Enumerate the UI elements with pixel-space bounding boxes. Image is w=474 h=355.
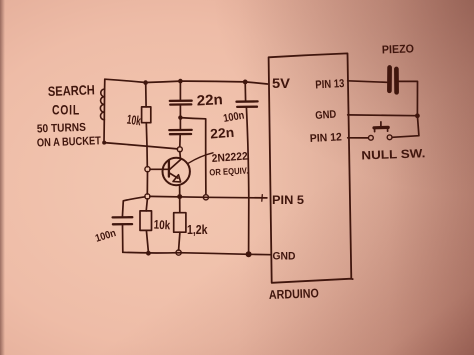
resistor 1.2k — [174, 199, 186, 250]
transistor Q1 2N2222 — [150, 152, 190, 195]
inductor L1 search coil — [100, 79, 104, 142]
label: NULL SW. — [361, 146, 425, 162]
pin label: 5V — [272, 76, 290, 91]
null switch S1 — [369, 122, 393, 140]
svg-text:ARDUINO: ARDUINO — [269, 286, 320, 302]
svg-text:1,2k: 1,2k — [187, 222, 208, 237]
junction ring: transistor base node — [145, 167, 150, 172]
label: 10k (lower) — [153, 218, 170, 233]
svg-text:OR EQUIV.: OR EQUIV. — [209, 165, 248, 177]
junction: rail x 10k top — [143, 80, 148, 85]
wire: PIN12 to null switch — [348, 137, 369, 139]
wire: bottom GND run to Arduino — [123, 252, 271, 254]
Arduino U1 box — [269, 53, 353, 282]
label: ARDUINO — [269, 286, 320, 302]
svg-text:10k: 10k — [153, 218, 170, 233]
svg-text:PIN 12: PIN 12 — [310, 131, 343, 145]
label: 100n (lower) — [94, 227, 118, 245]
svg-text:10k: 10k — [126, 112, 142, 129]
capacitor 100n (lower left) — [113, 197, 145, 253]
capacitor 22n (upper) — [170, 81, 192, 117]
junction: gnd x piezo return — [415, 113, 420, 118]
label pointer line to 2N2222 — [188, 153, 213, 163]
junction: rail x 100n top — [243, 80, 248, 85]
svg-text:SEARCH: SEARCH — [48, 82, 95, 99]
svg-text:GND: GND — [315, 109, 337, 122]
wire: PIN13 to piezo — [348, 81, 387, 83]
svg-text:2N2222: 2N2222 — [211, 151, 248, 165]
svg-text:PIN 13: PIN 13 — [315, 78, 345, 92]
pin label: GND (lower) — [273, 251, 296, 263]
junction: rail x cap top — [178, 79, 183, 84]
resistor 10k (upper) — [142, 83, 151, 167]
pin label: PIN 13 — [315, 78, 345, 92]
label: 10k (upper) — [126, 112, 142, 129]
junction ring: PIN5 x 10k node — [145, 194, 150, 199]
tick on PIN5 wire — [261, 195, 264, 202]
junction ring: GND x 1.2k bottom — [176, 250, 181, 255]
junction: PIN5 x emitter/1.2k node — [177, 194, 182, 199]
junction: between 22n caps — [178, 115, 182, 119]
resistor 10k (lower) — [140, 199, 152, 251]
svg-text:22n: 22n — [210, 125, 235, 142]
label: PIEZO — [382, 43, 414, 56]
wire: GND to null switch — [348, 114, 417, 117]
label: 22n (upper) — [196, 92, 223, 109]
capacitor 100n (upper right) — [237, 82, 258, 252]
svg-text:22n: 22n — [196, 92, 223, 109]
pin label: PIN 12 — [310, 131, 343, 145]
label: OR EQUIV. — [209, 165, 248, 177]
label: SEARCH COIL — [48, 82, 95, 117]
label: 50 TURNS ON A BUCKET — [37, 122, 101, 150]
label: 1,2k — [187, 222, 208, 237]
wire: cap midpoint over to PIN5 line — [180, 118, 206, 195]
piezo PZ1 — [389, 68, 396, 93]
junction ring: PIN5 x cap branch — [203, 195, 208, 200]
label: 100n (upper) — [222, 109, 245, 125]
pin label: GND (upper) — [315, 109, 337, 122]
junction: GND x 10k bottom — [146, 251, 151, 256]
junction ring: collector node — [177, 147, 182, 152]
junction: coil bottom corner — [102, 141, 106, 145]
junction: GND x 100n/cap line — [246, 251, 252, 257]
label: 22n (lower) — [210, 125, 235, 142]
svg-text:ON A BUCKET: ON A BUCKET — [37, 135, 101, 149]
svg-text:5V: 5V — [272, 76, 290, 91]
capacitor 22n (lower) — [169, 118, 191, 147]
svg-text:50 TURNS: 50 TURNS — [37, 122, 87, 136]
wire: coil bottom to transistor collector node — [104, 143, 177, 149]
wire: PIN 5 line to Arduino — [150, 196, 267, 198]
pin label: PIN 5 — [272, 193, 304, 207]
svg-text:COIL: COIL — [52, 103, 80, 118]
svg-text:PIEZO: PIEZO — [382, 43, 414, 56]
label: 2N2222 — [211, 151, 248, 165]
svg-text:GND: GND — [273, 251, 296, 263]
wire: base node vertical down to PIN5 node — [146, 172, 148, 194]
svg-text:NULL SW.: NULL SW. — [361, 146, 425, 162]
wire: piezo right side down — [392, 81, 419, 137]
wire: 5V top rail from coil top to Arduino — [105, 79, 268, 84]
svg-text:PIN 5: PIN 5 — [272, 193, 304, 207]
